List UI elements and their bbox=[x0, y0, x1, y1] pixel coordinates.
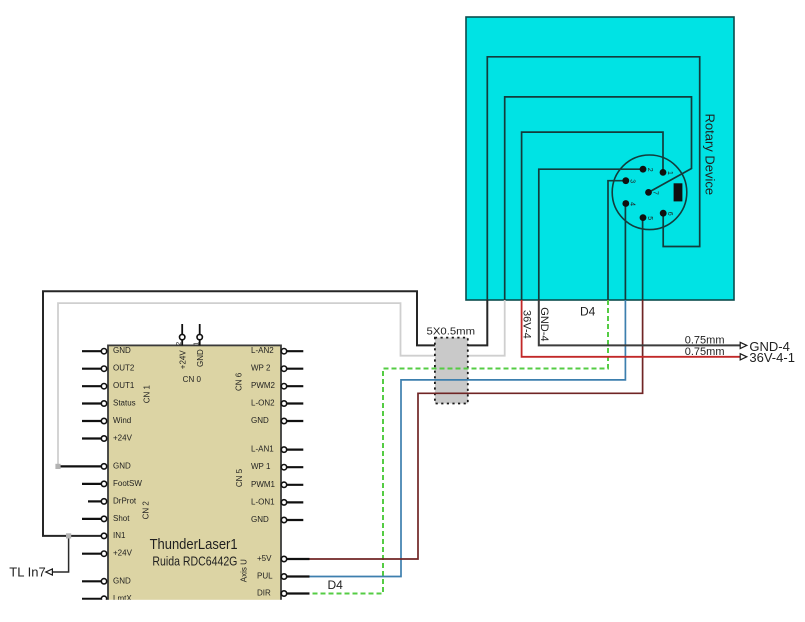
wire pin7 to cable (inside enclosure) bbox=[505, 97, 692, 300]
label +24V CN0 bbox=[178, 350, 187, 370]
wire pin1 to cable (inside enclosure) bbox=[522, 132, 663, 300]
pin WP 1 (right, y=467.2) bbox=[251, 462, 303, 471]
svg-text:3: 3 bbox=[629, 179, 636, 183]
label CN 0 bbox=[183, 375, 202, 384]
pin PUL (right, y=576.5) bbox=[257, 572, 310, 581]
label 5X0.5mm bbox=[427, 326, 476, 338]
svg-text:IN1: IN1 bbox=[113, 531, 126, 540]
wire blue pin4 to PUL bbox=[309, 300, 625, 577]
pin L-ON2 (right, y=403.5) bbox=[251, 399, 303, 408]
svg-text:+24V: +24V bbox=[113, 549, 133, 558]
connector key notch bbox=[674, 183, 683, 201]
svg-text:5: 5 bbox=[646, 216, 653, 220]
pin LmtX (left, y=598.8) bbox=[82, 594, 132, 603]
svg-text:GND: GND bbox=[113, 576, 131, 585]
pin +24V (left, y=438.5) bbox=[82, 434, 133, 443]
pin Wind (left, y=421.0) bbox=[82, 416, 131, 425]
label TL In7 bbox=[9, 565, 45, 580]
cable bundle 5X0.5mm bbox=[435, 338, 468, 404]
pin DrProt (left, y=501.4) bbox=[88, 496, 137, 505]
pin 2 bbox=[640, 166, 653, 173]
svg-text:1: 1 bbox=[194, 342, 201, 346]
svg-text:+5V: +5V bbox=[257, 554, 272, 563]
svg-text:CN 5: CN 5 bbox=[235, 468, 244, 487]
svg-text:4: 4 bbox=[629, 202, 636, 206]
svg-text:GND: GND bbox=[251, 515, 269, 524]
svg-text:WP 2: WP 2 bbox=[251, 364, 271, 373]
wire TL In7 branch bbox=[52, 536, 69, 572]
svg-text:+24V: +24V bbox=[178, 350, 187, 370]
label 36V-4-1 net bbox=[749, 350, 795, 365]
wire pin5 to cable (inside enclosure) bbox=[642, 218, 644, 300]
pin 7 bbox=[645, 189, 658, 196]
pin OUT2 (left, y=368.7) bbox=[82, 364, 135, 373]
wire green dashed pin3 to DIR bbox=[309, 300, 608, 594]
svg-text:L-ON2: L-ON2 bbox=[251, 399, 275, 408]
pin GND (left, y=351.2) bbox=[82, 346, 131, 355]
connector J1 DIN circle bbox=[612, 155, 687, 230]
svg-text:D4: D4 bbox=[580, 304, 596, 318]
pin IN1 (left, y=535.9) bbox=[101, 531, 126, 540]
label CN 1 bbox=[142, 385, 151, 404]
svg-text:2: 2 bbox=[646, 168, 653, 172]
pin 6 bbox=[660, 210, 673, 217]
label 36V-4 vertical bbox=[521, 310, 533, 339]
label 0.75mm upper bbox=[685, 335, 725, 347]
svg-text:2: 2 bbox=[176, 342, 183, 346]
svg-text:L-AN1: L-AN1 bbox=[251, 445, 274, 454]
pin 4 bbox=[622, 200, 635, 207]
pin 3 bbox=[622, 177, 635, 184]
svg-text:GND-4: GND-4 bbox=[538, 307, 550, 341]
svg-text:D4: D4 bbox=[328, 578, 344, 592]
svg-text:L-AN2: L-AN2 bbox=[251, 346, 274, 355]
svg-text:TL In7: TL In7 bbox=[9, 565, 45, 580]
top pin 2 of CN0 bbox=[176, 324, 185, 346]
svg-text:Shot: Shot bbox=[113, 514, 130, 523]
bottom clip (drawing cut at y=600) bbox=[0, 600, 805, 622]
svg-text:Status: Status bbox=[113, 399, 136, 408]
svg-text:OUT2: OUT2 bbox=[113, 364, 135, 373]
svg-text:CN 1: CN 1 bbox=[142, 385, 151, 404]
wire black pin6 to IN1 bbox=[43, 291, 487, 536]
arrowhead 36V-4-1 bbox=[740, 354, 747, 360]
wire gray GND-4 bbox=[539, 300, 741, 345]
svg-text:GND: GND bbox=[113, 346, 131, 355]
svg-text:6: 6 bbox=[666, 212, 673, 216]
pin GND (right, y=520.0) bbox=[251, 515, 303, 524]
rotary device enclosure bbox=[466, 17, 734, 300]
pin FootSW (left, y=483.9) bbox=[82, 479, 142, 488]
pin 1 bbox=[660, 169, 673, 176]
pin 5 bbox=[640, 214, 653, 221]
svg-text:5X0.5mm: 5X0.5mm bbox=[427, 326, 476, 338]
svg-text:FootSW: FootSW bbox=[113, 479, 142, 488]
svg-text:CN 0: CN 0 bbox=[183, 375, 202, 384]
pin PWM1 (right, y=484.8) bbox=[251, 480, 303, 489]
svg-text:GND: GND bbox=[251, 416, 269, 425]
pin +5V (right, y=559.0) bbox=[257, 554, 310, 563]
top pin 1 of CN0 bbox=[194, 324, 203, 346]
svg-text:GND: GND bbox=[113, 461, 131, 470]
arrowhead TL In7 bbox=[46, 569, 53, 575]
svg-text:DrProt: DrProt bbox=[113, 496, 137, 505]
svg-text:36V-4-1: 36V-4-1 bbox=[749, 350, 795, 365]
svg-text:GND: GND bbox=[196, 349, 205, 367]
wire pin2 to cable (inside enclosure) bbox=[539, 169, 643, 300]
wire pin6 to cable (inside enclosure) bbox=[487, 57, 699, 300]
svg-text:Axis U: Axis U bbox=[240, 559, 249, 582]
label D4 bottom bbox=[328, 578, 344, 592]
svg-text:L-ON1: L-ON1 bbox=[251, 497, 275, 506]
svg-text:PWM2: PWM2 bbox=[251, 381, 276, 390]
wire pin3 to cable (inside enclosure) bbox=[608, 181, 626, 300]
svg-text:PUL: PUL bbox=[257, 572, 273, 581]
svg-text:Wind: Wind bbox=[113, 416, 131, 425]
label D4 top bbox=[580, 304, 596, 318]
svg-text:0.75mm: 0.75mm bbox=[685, 335, 725, 347]
label CN 2 bbox=[141, 501, 150, 520]
pin GND (right, y=421.0) bbox=[251, 416, 303, 425]
pin L-ON1 (right, y=502.4) bbox=[251, 497, 303, 506]
svg-text:WP 1: WP 1 bbox=[251, 462, 271, 471]
label GND-4 vertical bbox=[538, 307, 550, 341]
wire red 36V-4 to 36V-4-1 bbox=[522, 300, 741, 357]
arrowhead GND-4 bbox=[740, 342, 747, 348]
svg-text:CN 2: CN 2 bbox=[141, 501, 150, 520]
pin Status (left, y=403.5) bbox=[82, 399, 136, 408]
wire white pin7 to GND bbox=[58, 300, 505, 466]
junction node GND wire bbox=[55, 464, 60, 469]
pin L-AN2 (right, y=351.2) bbox=[251, 346, 303, 355]
pin PWM2 (right, y=386.2) bbox=[251, 381, 303, 390]
pin WP 2 (right, y=368.7) bbox=[251, 364, 303, 373]
pin GND (left, y=581.3) bbox=[82, 576, 131, 585]
label ThunderLaser1 bbox=[150, 537, 238, 553]
svg-text:Rotary Device: Rotary Device bbox=[703, 113, 718, 195]
svg-text:0.75mm: 0.75mm bbox=[685, 346, 725, 358]
label CN 5 bbox=[235, 468, 244, 487]
pin OUT1 (left, y=386.2) bbox=[82, 381, 135, 390]
pin DIR (right, y=593.5) bbox=[257, 589, 310, 598]
controller U1 ThunderLaser1 Ruida RDC6442G bbox=[108, 345, 281, 605]
label Ruida RDC6442G bbox=[152, 555, 237, 569]
junction node IN1 wire bbox=[66, 533, 71, 538]
svg-text:36V-4: 36V-4 bbox=[521, 310, 533, 339]
wire pin4 to cable (inside enclosure) bbox=[624, 204, 626, 301]
label GND-4 net bbox=[749, 339, 789, 354]
pin GND (left, y=466.4) bbox=[60, 461, 131, 470]
svg-text:CN 6: CN 6 bbox=[235, 372, 244, 391]
pin +24V (left, y=553.7) bbox=[82, 549, 133, 558]
svg-text:ThunderLaser1: ThunderLaser1 bbox=[150, 537, 238, 553]
label GND CN0 bbox=[196, 349, 205, 367]
label Axis U bbox=[240, 559, 249, 582]
label 0.75mm lower bbox=[685, 346, 725, 358]
svg-text:Ruida RDC6442G: Ruida RDC6442G bbox=[152, 555, 237, 569]
pin Shot (left, y=518.9) bbox=[82, 514, 130, 523]
svg-text:7: 7 bbox=[651, 191, 658, 195]
pin L-AN1 (right, y=449.6) bbox=[251, 445, 303, 454]
svg-text:PWM1: PWM1 bbox=[251, 480, 276, 489]
label CN 6 bbox=[235, 372, 244, 391]
svg-text:+24V: +24V bbox=[113, 434, 133, 443]
svg-text:DIR: DIR bbox=[257, 589, 271, 598]
wire maroon pin5 to +5V bbox=[309, 300, 643, 559]
label Rotary Device bbox=[703, 113, 718, 195]
svg-text:OUT1: OUT1 bbox=[113, 381, 135, 390]
svg-text:1: 1 bbox=[666, 171, 673, 175]
